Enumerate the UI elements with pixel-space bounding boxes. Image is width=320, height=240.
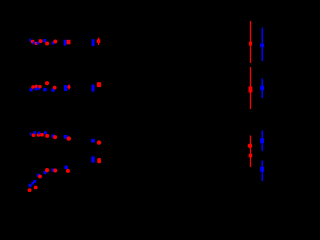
data point blue b2-3 [37,86,40,89]
data point red r1-3 [39,39,43,43]
data point blue b4-2 [31,182,34,185]
data point red r1-2 [35,42,38,45]
data point red r3-7 [97,140,101,144]
data point blue b4-5 [44,171,47,174]
data point red r1-5 [53,40,57,44]
data point blue b3-3 [38,132,41,135]
data point blue b1-4 [43,39,46,42]
blue marker square level 2 [260,86,264,91]
data point red r2-2 [35,85,38,88]
data point blue b1-1 [29,39,31,42]
data point blue b3-2 [33,131,36,134]
data point red r2-6 diamond [67,84,71,90]
data point blue b4-3 [33,180,36,183]
data point red r4-5 [53,169,57,173]
data point blue b4-8 error bar [91,157,95,163]
blue error bar segment 4 [262,160,264,181]
red error bar segment 1 [250,21,251,63]
series row2: branch 2 scatter [29,81,101,92]
data point red r4-3 [38,175,42,179]
data point blue b3-4 [44,131,47,134]
data point red r3-2 [37,133,41,137]
blue error bar segment 1 [262,28,264,61]
red marker square level 2 [249,87,253,93]
data point red r1-4 [45,42,49,46]
data point blue b1-7 error bar [92,39,95,46]
data point red r2-4 high [45,81,49,85]
red marker square level 1 [249,42,252,46]
data point red r3-1 [32,133,36,137]
data point blue b2-2 [35,87,38,90]
data point blue b2-5 [51,88,54,91]
data point blue b1-2 [33,42,36,45]
blue error bar segment 3 [262,131,264,152]
data point red r4-2 [34,186,38,190]
data point red r2-1 [31,85,35,89]
blue marker square level 4 [260,167,264,172]
data point red r1-7 error bar [98,38,99,46]
data point red r1-6 [67,40,71,45]
data point red r3-6 [67,136,71,140]
data point blue b4-4 [37,174,40,177]
blue marker square level 1 [260,44,264,48]
red marker square level 4 [249,154,253,158]
data point blue b1-5 [52,42,55,45]
data point red r1-1 [31,40,35,44]
blue marker square level 3 [260,138,264,143]
data point blue b3-7 [91,139,95,143]
data point blue b2-7 error bar [92,85,95,92]
series row1: branch 1 scatter [29,38,100,47]
data point red r4-7 [97,158,101,163]
data point red r4-4 [45,168,49,172]
red marker circle level 3 [248,144,253,149]
data point blue b1-3 [37,42,40,45]
data point blue b2-4 [43,88,46,91]
data point red r3-5 [53,135,57,139]
data point blue b3-5 [51,135,54,138]
data point red r4-1 [28,188,32,192]
data point blue b4-6 [51,169,54,172]
data point blue b2-1 [29,88,32,91]
data point blue b1-6 error bar [64,40,67,46]
data point red r4-6 [66,169,70,173]
data point blue b3-1 [30,133,32,136]
data point red r2-5 [53,86,57,90]
data point blue b4-7 [65,166,68,169]
data point blue b4-1 [29,184,32,187]
data point blue b3-6 [64,135,68,139]
red error bar segment 2 [250,67,251,109]
blue level column at Gamma [260,28,264,181]
data point red r2-3 [38,85,41,88]
data point red r2-7 [97,82,101,87]
red error bar segment 3 [250,136,251,168]
blue error bar segment 2 [262,79,264,99]
series row4: acoustic branch chain [28,157,101,193]
data point red r3-3 [40,133,44,137]
red level column at Gamma [248,21,253,167]
data point red r3-4 [45,134,49,138]
series row3: branch 3 scatter [30,131,102,145]
data point blue b2-6 error bar [64,85,67,91]
